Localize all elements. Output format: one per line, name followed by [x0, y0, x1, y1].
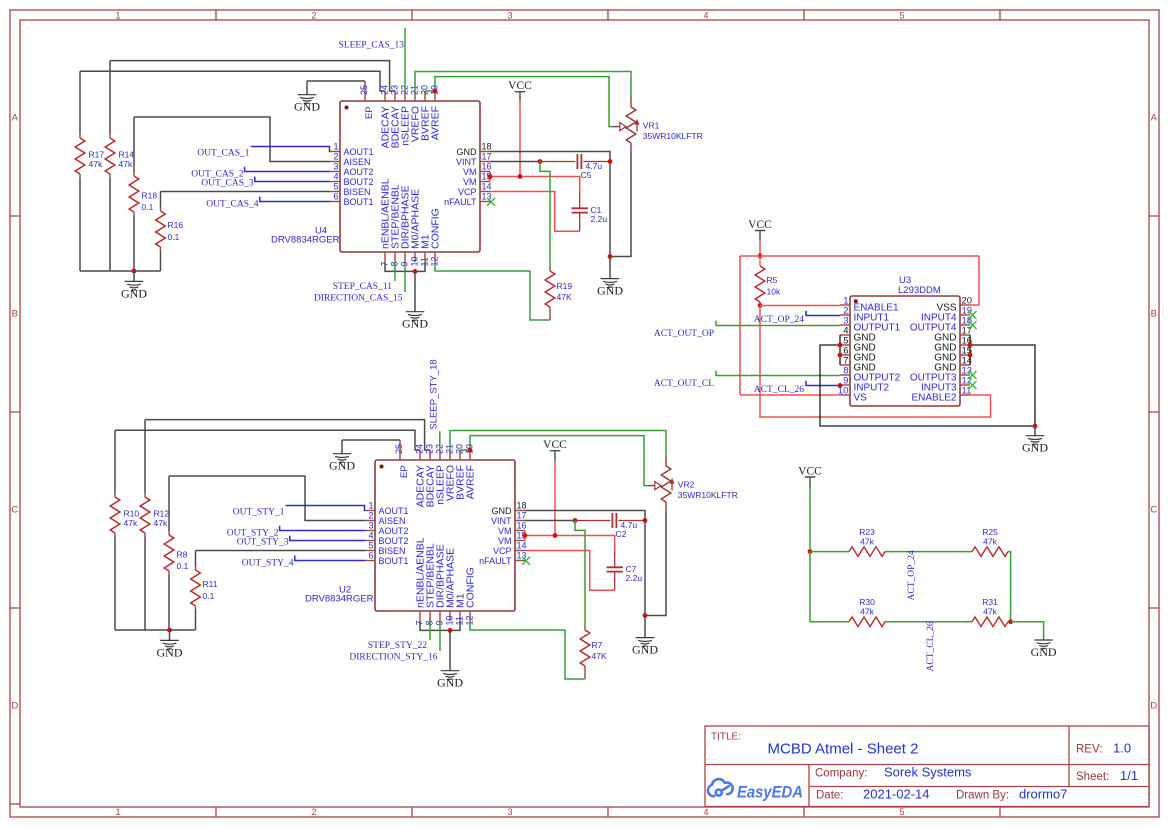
svg-text:DRV8834RGER: DRV8834RGER [305, 594, 374, 605]
svg-text:35WR10KLFTR: 35WR10KLFTR [643, 131, 703, 141]
svg-text:A: A [1151, 113, 1158, 124]
svg-text:GND: GND [632, 643, 658, 657]
svg-text:C5: C5 [581, 170, 592, 180]
wire [645, 512, 666, 616]
svg-text:BISEN: BISEN [379, 546, 406, 556]
svg-text:TITLE:: TITLE: [711, 732, 741, 743]
wire [525, 511, 645, 616]
wire [760, 306, 991, 418]
ground [1034, 640, 1053, 649]
junction [838, 353, 843, 358]
svg-text:AOUT2: AOUT2 [344, 167, 374, 177]
svg-text:47k: 47k [860, 607, 874, 617]
net label OUT_STY_4 [242, 556, 365, 569]
wire [307, 80, 365, 82]
wire [525, 551, 615, 591]
svg-text:18: 18 [517, 501, 527, 511]
ic U3 L293DDM [838, 275, 972, 406]
svg-text:Date:: Date: [816, 790, 844, 802]
svg-text:VCP: VCP [493, 546, 512, 556]
svg-text:drormo7: drormo7 [1019, 787, 1067, 802]
resistor R14 47k [105, 134, 134, 178]
junction [553, 533, 558, 538]
svg-text:ACT_OP_24: ACT_OP_24 [754, 315, 804, 325]
svg-text:2.2u: 2.2u [591, 214, 608, 224]
junction [838, 343, 843, 348]
svg-text:VS: VS [854, 392, 868, 403]
svg-text:DIRECTION_STY_16: DIRECTION_STY_16 [349, 653, 437, 663]
svg-text:ACT_CL_26: ACT_CL_26 [754, 385, 804, 395]
no-connect U3 pin13 [969, 371, 977, 379]
svg-text:R17: R17 [89, 150, 105, 160]
wire [490, 172, 580, 192]
resistor R10 47k [110, 493, 139, 537]
wire [525, 520, 575, 522]
svg-text:17: 17 [482, 152, 492, 162]
svg-text:C2: C2 [616, 529, 627, 539]
svg-text:CONFIG: CONFIG [430, 208, 442, 249]
svg-text:L293DDM: L293DDM [898, 285, 941, 296]
svg-text:OUT_STY_3: OUT_STY_3 [237, 538, 289, 548]
resistor R18 0.1 [129, 172, 157, 216]
trimmer VR2 35WR10KLFTR [648, 456, 738, 512]
svg-text:GND: GND [457, 147, 478, 157]
svg-text:AOUT2: AOUT2 [379, 526, 409, 536]
svg-text:6: 6 [333, 192, 338, 202]
svg-text:47k: 47k [983, 536, 997, 546]
net label OUT_STY_3 [237, 536, 365, 548]
svg-text:Sorek Systems: Sorek Systems [884, 765, 972, 780]
svg-text:OUT_STY_4: OUT_STY_4 [242, 558, 294, 568]
svg-text:EasyEDA: EasyEDA [737, 783, 803, 802]
wire [161, 192, 331, 208]
wire [575, 521, 585, 626]
svg-text:23: 23 [390, 85, 400, 95]
svg-text:OUT_CAS_3: OUT_CAS_3 [201, 179, 254, 189]
wire [80, 178, 161, 271]
svg-text:R10: R10 [124, 509, 140, 519]
svg-text:D: D [1150, 701, 1157, 712]
svg-text:VM: VM [463, 177, 477, 187]
svg-text:2: 2 [368, 511, 373, 521]
capacitor C2 4.7u [575, 513, 645, 539]
svg-text:23: 23 [425, 444, 435, 454]
wire [554, 461, 556, 536]
svg-text:4: 4 [703, 10, 708, 20]
wire [342, 439, 400, 441]
svg-text:STEP_CAS_11: STEP_CAS_11 [333, 282, 393, 292]
wire [435, 262, 550, 320]
no-connect U3 pin19 [969, 311, 977, 319]
svg-text:1: 1 [115, 10, 120, 20]
logo EasyEDA [708, 779, 803, 801]
svg-text:VINT: VINT [491, 516, 512, 526]
ground [449, 630, 451, 670]
junction [468, 448, 473, 453]
svg-text:nFAULT: nFAULT [444, 197, 477, 207]
ground [644, 616, 646, 638]
junction [523, 533, 528, 538]
net label ACT_CL_26 [754, 381, 840, 396]
junction [643, 613, 648, 618]
wire [115, 430, 420, 493]
net label ACT_OP_24 [754, 311, 840, 326]
wire [110, 61, 395, 134]
ground [341, 440, 343, 454]
net label ACT_OUT_OP [654, 321, 840, 339]
net label DIRECTION_CAS_15 [314, 262, 405, 304]
junction [433, 89, 438, 94]
net label STEP_CAS_11 [333, 262, 395, 292]
svg-text:GND: GND [294, 100, 320, 114]
resistor R8 0.1 [164, 531, 188, 575]
svg-text:SLEEP_CAS_13: SLEEP_CAS_13 [339, 41, 405, 51]
svg-text:5: 5 [333, 182, 338, 192]
power VCC [748, 219, 772, 241]
svg-text:ENABLE2: ENABLE2 [911, 392, 956, 403]
svg-text:STEP_STY_22: STEP_STY_22 [368, 641, 427, 651]
svg-text:DRV8834RGER: DRV8834RGER [271, 235, 340, 246]
svg-text:1/1: 1/1 [1120, 768, 1138, 783]
svg-text:47k: 47k [154, 518, 168, 528]
svg-text:0.1: 0.1 [142, 202, 154, 212]
svg-text:2021-02-14: 2021-02-14 [863, 787, 930, 802]
svg-text:R16: R16 [168, 220, 184, 230]
svg-text:35WR10KLFTR: 35WR10KLFTR [678, 490, 738, 500]
svg-text:3: 3 [333, 162, 338, 172]
svg-text:DIRECTION_CAS_15: DIRECTION_CAS_15 [314, 294, 403, 304]
svg-text:BISEN: BISEN [344, 187, 371, 197]
wire [540, 162, 550, 267]
junction [573, 518, 578, 523]
wire [145, 420, 430, 493]
junction [413, 269, 418, 274]
svg-text:2: 2 [311, 10, 316, 20]
net label SLEEP_CAS_13 [339, 28, 405, 91]
svg-text:GND: GND [492, 506, 513, 516]
svg-text:2: 2 [333, 152, 338, 162]
wire [196, 551, 366, 567]
svg-text:BOUT1: BOUT1 [344, 197, 374, 207]
svg-text:4: 4 [703, 807, 708, 817]
svg-text:VCC: VCC [543, 439, 567, 451]
wire [810, 552, 1011, 622]
svg-text:AISEN: AISEN [379, 516, 406, 526]
svg-text:D: D [11, 701, 18, 712]
junction [167, 628, 172, 633]
wire [450, 431, 666, 457]
svg-text:OUT_STY_1: OUT_STY_1 [233, 508, 285, 518]
junction [608, 254, 613, 259]
svg-text:14: 14 [482, 182, 492, 192]
svg-text:VR2: VR2 [678, 480, 695, 490]
junction [1008, 619, 1013, 624]
resistor R12 47k [140, 493, 169, 537]
svg-text:R7: R7 [592, 640, 603, 650]
svg-text:24: 24 [380, 85, 390, 95]
svg-text:1: 1 [115, 807, 120, 817]
svg-text:10k: 10k [767, 287, 781, 297]
svg-text:24: 24 [415, 444, 425, 454]
trimmer VR1 35WR10KLFTR [613, 97, 703, 153]
resistor R16 0.1 [156, 207, 184, 251]
ground [609, 257, 611, 279]
svg-text:47k: 47k [124, 518, 138, 528]
svg-text:5: 5 [899, 807, 904, 817]
svg-text:REV:: REV: [1076, 744, 1102, 756]
wire [490, 192, 580, 232]
svg-text:16: 16 [517, 521, 527, 531]
svg-text:ACT_OUT_OP: ACT_OUT_OP [654, 329, 714, 339]
net label SLEEP_STY_18 [429, 359, 440, 450]
wire [415, 72, 631, 98]
svg-text:SLEEP_STY_18: SLEEP_STY_18 [429, 359, 440, 429]
svg-text:4: 4 [333, 172, 338, 182]
net label DIRECTION_STY_16 [349, 621, 440, 663]
svg-text:MCBD Atmel - Sheet 2: MCBD Atmel - Sheet 2 [768, 741, 919, 758]
svg-text:VCC: VCC [798, 465, 822, 477]
wire [490, 152, 610, 257]
svg-text:VCP: VCP [458, 187, 477, 197]
svg-text:18: 18 [482, 142, 492, 152]
svg-text:25: 25 [359, 85, 369, 95]
resistor R7 47K [580, 625, 607, 679]
net label OUT_STY_1 [233, 506, 365, 518]
svg-text:10: 10 [410, 256, 420, 266]
svg-text:GND: GND [597, 284, 623, 298]
ground [169, 630, 171, 640]
net label OUT_CAS_3 [201, 177, 330, 189]
svg-text:5: 5 [368, 541, 373, 551]
title block [705, 726, 1149, 807]
wire [460, 436, 648, 486]
svg-text:1.0: 1.0 [1113, 741, 1131, 756]
wire [759, 241, 761, 257]
svg-text:ACT_OUT_CL: ACT_OUT_CL [654, 379, 714, 389]
junction [1033, 424, 1038, 429]
junction [448, 628, 453, 633]
resistor R31 47k [972, 597, 1008, 626]
wire [385, 262, 425, 271]
svg-text:R19: R19 [557, 281, 573, 291]
svg-text:Drawn By:: Drawn By: [956, 790, 1009, 802]
svg-text:Company:: Company: [815, 768, 867, 780]
svg-text:GND: GND [1022, 441, 1048, 455]
no-connect U3 pin12 [969, 381, 977, 389]
svg-text:3: 3 [507, 807, 512, 817]
svg-text:25: 25 [394, 444, 404, 454]
svg-text:4: 4 [368, 531, 373, 541]
svg-text:EP: EP [399, 465, 410, 478]
junction [518, 174, 523, 179]
ground [306, 81, 308, 95]
resistor R11 0.1 [191, 566, 218, 610]
svg-text:GND: GND [402, 317, 428, 331]
svg-text:AOUT1: AOUT1 [379, 506, 409, 516]
svg-text:AVREF: AVREF [465, 465, 477, 499]
net label STEP_STY_22 [368, 621, 430, 651]
svg-text:1: 1 [333, 142, 338, 152]
power VCC [543, 439, 567, 461]
svg-text:VM: VM [498, 536, 512, 546]
svg-text:AISEN: AISEN [344, 157, 371, 167]
svg-text:6: 6 [368, 551, 373, 561]
wire [470, 621, 585, 679]
svg-text:C: C [11, 505, 18, 516]
junction [488, 174, 493, 179]
svg-text:2: 2 [311, 807, 316, 817]
svg-text:EP: EP [364, 106, 375, 119]
wire [420, 621, 460, 630]
svg-text:20: 20 [420, 85, 430, 95]
svg-text:OUT_CAS_1: OUT_CAS_1 [197, 149, 250, 159]
resistor R5 10k [755, 256, 781, 306]
svg-text:ACT_CL_26: ACT_CL_26 [926, 621, 936, 671]
no-connect U4 pin13 nFAULT [487, 198, 495, 206]
resistor R17 47k [75, 134, 104, 178]
svg-text:OUT_CAS_4: OUT_CAS_4 [206, 199, 259, 209]
wire [80, 71, 385, 134]
svg-text:47K: 47K [557, 292, 572, 302]
svg-text:CONFIG: CONFIG [465, 567, 477, 608]
junction [758, 303, 763, 308]
svg-text:3: 3 [507, 10, 512, 20]
svg-text:R8: R8 [177, 550, 188, 560]
wire [970, 335, 1035, 426]
svg-text:VM: VM [498, 526, 512, 536]
net label OUT_CAS_1 [197, 147, 330, 159]
wire [809, 487, 811, 552]
svg-text:0.1: 0.1 [168, 232, 180, 242]
wire [169, 476, 365, 531]
svg-text:GND: GND [157, 645, 183, 659]
ic U2 DRV8834RGER [305, 440, 527, 626]
svg-text:5: 5 [899, 10, 904, 20]
svg-text:ACT_OP_24: ACT_OP_24 [907, 550, 917, 600]
svg-text:A: A [12, 113, 19, 124]
net label OUT_CAS_4 [206, 197, 330, 210]
svg-text:3: 3 [368, 521, 373, 531]
wire [740, 256, 979, 395]
svg-text:20: 20 [455, 444, 465, 454]
svg-text:2.2u: 2.2u [626, 573, 643, 583]
no-connect U2 pin13 nFAULT [522, 557, 530, 565]
wire [134, 117, 330, 172]
wire [490, 161, 540, 163]
wire [525, 531, 615, 551]
ground [133, 271, 135, 281]
svg-text:R18: R18 [142, 191, 158, 201]
svg-text:VINT: VINT [456, 157, 477, 167]
svg-text:R14: R14 [119, 150, 135, 160]
ic U4 DRV8834RGER [271, 81, 492, 267]
resistor R30 47k [849, 597, 885, 626]
svg-text:VM: VM [463, 167, 477, 177]
power VCC [508, 80, 532, 102]
svg-text:1: 1 [368, 501, 373, 511]
wire [810, 552, 1011, 622]
svg-text:B: B [1151, 309, 1157, 320]
svg-text:0.1: 0.1 [177, 561, 189, 571]
junction [758, 254, 763, 259]
junction [838, 383, 843, 388]
svg-text:17: 17 [517, 511, 527, 521]
svg-text:VR1: VR1 [643, 121, 660, 131]
svg-text:BOUT1: BOUT1 [379, 556, 409, 566]
svg-text:GND: GND [437, 676, 463, 690]
svg-text:nFAULT: nFAULT [479, 556, 512, 566]
svg-text:16: 16 [482, 162, 492, 172]
junction [132, 269, 137, 274]
ground [1034, 426, 1036, 436]
junction [968, 343, 973, 348]
power VCC [798, 465, 822, 487]
svg-text:GND: GND [329, 459, 355, 473]
junction [538, 159, 543, 164]
resistor R23 47k [849, 527, 885, 556]
svg-text:R11: R11 [203, 579, 218, 589]
svg-text:VCC: VCC [748, 219, 772, 231]
svg-text:AOUT1: AOUT1 [344, 147, 374, 157]
svg-text:VCC: VCC [508, 80, 532, 92]
svg-text:AVREF: AVREF [430, 106, 442, 140]
svg-text:Sheet:: Sheet: [1076, 771, 1109, 783]
svg-text:GND: GND [121, 286, 147, 300]
resistor R19 47K [545, 266, 572, 320]
svg-text:47k: 47k [119, 159, 133, 169]
net label OUT_CAS_2 [191, 167, 330, 180]
wire [820, 335, 1035, 426]
capacitor C7 2.2u [607, 550, 643, 590]
svg-text:C: C [1150, 505, 1157, 516]
svg-text:47K: 47K [592, 651, 607, 661]
svg-text:R5: R5 [767, 275, 778, 285]
svg-text:0.1: 0.1 [203, 591, 215, 601]
svg-text:GND: GND [1031, 645, 1057, 659]
wire [519, 102, 521, 177]
junction [608, 159, 613, 164]
wire [115, 537, 196, 630]
wire [1011, 622, 1044, 640]
resistor R25 47k [972, 527, 1008, 556]
wire [610, 153, 631, 257]
svg-text:47k: 47k [860, 536, 874, 546]
svg-text:BOUT2: BOUT2 [379, 536, 409, 546]
net label ACT_OUT_CL [654, 371, 840, 389]
svg-text:47k: 47k [983, 607, 997, 617]
junction [808, 549, 813, 554]
svg-text:14: 14 [517, 541, 527, 551]
ground [414, 271, 416, 311]
junction [643, 518, 648, 523]
no-connect U3 pin18 [969, 321, 977, 329]
svg-text:10: 10 [445, 615, 455, 625]
wire [425, 77, 613, 127]
net label OUT_STY_2 [227, 526, 365, 539]
capacitor C1 2.2u [572, 191, 608, 231]
capacitor C5 4.7u [540, 154, 610, 180]
svg-text:R12: R12 [154, 509, 170, 519]
junction [968, 353, 973, 358]
svg-text:B: B [12, 309, 18, 320]
svg-text:BOUT2: BOUT2 [344, 177, 374, 187]
svg-text:47k: 47k [89, 159, 103, 169]
